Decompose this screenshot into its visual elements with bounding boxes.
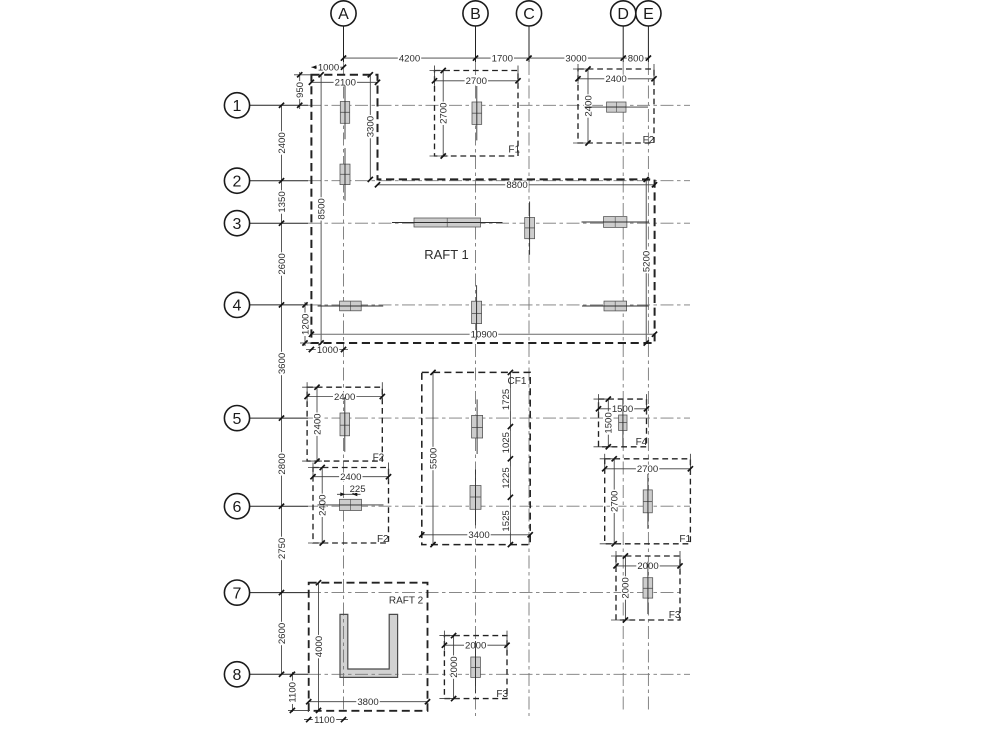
svg-text:B: B — [470, 6, 481, 23]
svg-text:3800: 3800 — [357, 697, 378, 708]
svg-text:1025: 1025 — [501, 432, 512, 453]
svg-text:2700: 2700 — [610, 491, 621, 512]
svg-text:8500: 8500 — [316, 198, 327, 219]
svg-text:800: 800 — [628, 53, 644, 64]
svg-text:2: 2 — [233, 173, 242, 190]
svg-text:F2: F2 — [377, 534, 389, 545]
svg-text:F3: F3 — [496, 689, 508, 700]
svg-text:F2: F2 — [643, 135, 655, 146]
svg-text:1000: 1000 — [318, 63, 339, 74]
svg-text:A: A — [338, 6, 349, 23]
svg-text:1500: 1500 — [604, 412, 615, 433]
svg-text:RAFT 2: RAFT 2 — [389, 596, 424, 607]
svg-text:2700: 2700 — [439, 103, 450, 124]
svg-text:3000: 3000 — [565, 53, 586, 64]
svg-text:2800: 2800 — [277, 453, 288, 474]
svg-text:5500: 5500 — [428, 448, 439, 469]
svg-text:2600: 2600 — [277, 623, 288, 644]
svg-text:F1: F1 — [508, 144, 520, 155]
svg-text:1525: 1525 — [501, 510, 512, 531]
svg-text:3: 3 — [233, 216, 242, 233]
svg-text:E: E — [643, 6, 654, 23]
svg-text:1200: 1200 — [300, 314, 311, 335]
svg-text:RAFT 1: RAFT 1 — [424, 247, 469, 262]
svg-text:1100: 1100 — [314, 715, 335, 726]
svg-text:225: 225 — [350, 484, 366, 495]
svg-text:4: 4 — [233, 298, 242, 315]
svg-text:4200: 4200 — [399, 53, 420, 64]
svg-text:1700: 1700 — [492, 53, 513, 64]
svg-text:C: C — [523, 6, 535, 23]
svg-text:F2: F2 — [373, 453, 385, 464]
svg-text:2400: 2400 — [605, 74, 626, 85]
svg-text:5: 5 — [233, 411, 242, 428]
svg-text:CF1: CF1 — [508, 376, 527, 387]
svg-text:950: 950 — [295, 82, 306, 98]
svg-text:2600: 2600 — [277, 253, 288, 274]
svg-text:6: 6 — [233, 499, 242, 516]
svg-text:F4: F4 — [636, 437, 648, 448]
svg-text:2400: 2400 — [277, 132, 288, 153]
svg-text:10900: 10900 — [471, 330, 498, 341]
svg-text:2400: 2400 — [340, 472, 361, 483]
svg-text:2700: 2700 — [637, 464, 658, 475]
svg-text:1725: 1725 — [501, 389, 512, 410]
svg-text:2000: 2000 — [621, 577, 632, 598]
svg-text:3400: 3400 — [468, 530, 489, 541]
svg-text:1225: 1225 — [501, 467, 512, 488]
svg-text:4000: 4000 — [314, 636, 325, 657]
svg-text:2400: 2400 — [312, 413, 323, 434]
svg-text:F1: F1 — [679, 534, 691, 545]
svg-text:3300: 3300 — [366, 116, 377, 137]
svg-text:2700: 2700 — [466, 76, 487, 87]
svg-text:8: 8 — [233, 667, 242, 684]
svg-text:2000: 2000 — [449, 656, 460, 677]
svg-text:3600: 3600 — [277, 353, 288, 374]
svg-text:1100: 1100 — [288, 682, 299, 703]
svg-text:1: 1 — [233, 98, 242, 115]
svg-text:2400: 2400 — [583, 95, 594, 116]
svg-text:1350: 1350 — [277, 191, 288, 212]
svg-text:1000: 1000 — [317, 345, 338, 356]
svg-text:D: D — [617, 6, 629, 23]
svg-text:8800: 8800 — [506, 180, 527, 191]
svg-text:F3: F3 — [669, 610, 681, 621]
svg-text:7: 7 — [233, 585, 242, 602]
svg-text:2750: 2750 — [277, 538, 288, 559]
svg-text:5200: 5200 — [642, 251, 653, 272]
